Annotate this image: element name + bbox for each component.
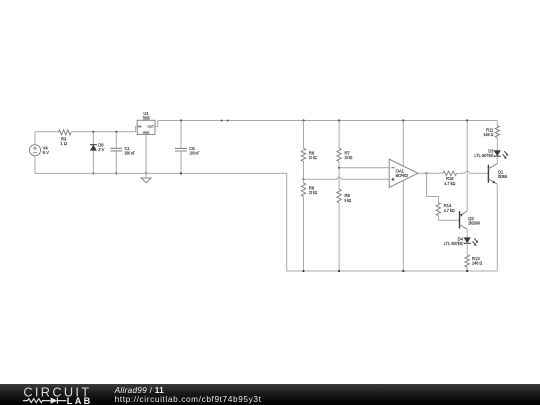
node bottom rail / op-amp V-: [402, 270, 404, 272]
wire R7/R8 node to op-amp minus: [339, 167, 389, 169]
resistor R9 22 k: [301, 179, 317, 196]
svg-text:2 V: 2 V: [98, 147, 104, 152]
node top rail / R6 column: [302, 119, 304, 121]
voltage source V4: [29, 145, 49, 156]
node top rail / C8: [180, 119, 182, 121]
wire R9 to bottom rail: [303, 197, 305, 272]
wire R6/R9 node to op-amp plus with hop: [304, 177, 390, 179]
resistor R11 146 ohm: [483, 126, 499, 138]
diode D6: [90, 132, 105, 174]
svg-text:10 kΩ: 10 kΩ: [309, 155, 317, 160]
svg-text:4.7 kΩ: 4.7 kΩ: [444, 181, 455, 186]
svg-text:100 nF: 100 nF: [189, 151, 200, 156]
capacitor C1 330 nF: [110, 132, 135, 174]
node R6/R9 junction: [302, 178, 304, 180]
resistor R13 146 ohm: [465, 255, 482, 267]
wire output to R16: [427, 172, 443, 174]
wire drop left-bottom rail down to lower rail: [287, 173, 304, 271]
LED D4 LTL-307EE: [444, 236, 478, 246]
svg-text:7805: 7805: [143, 115, 151, 120]
svg-text:LTL-307EE: LTL-307EE: [444, 241, 463, 246]
transistor Q1 2N3904: [488, 164, 507, 185]
wire top-left rail to R3: [35, 131, 58, 133]
node top rail / R7 column: [338, 119, 340, 121]
resistor R3: [58, 130, 71, 146]
wire hop to Q1 base: [469, 172, 488, 174]
wire D3 to Q1 collector: [496, 156, 498, 163]
wire op-amp V+ supply: [402, 121, 404, 167]
logo resistor zigzag: [23, 399, 51, 403]
wire top rail corner to R11: [496, 121, 498, 126]
svg-text:146 Ω: 146 Ω: [472, 260, 482, 265]
wire R13 to bottom rail: [466, 267, 468, 271]
resistor R6 10 k: [301, 121, 316, 162]
svg-text:9 kΩ: 9 kΩ: [345, 198, 352, 203]
wire R8 to bottom rail: [338, 203, 340, 271]
node bottom rail / R8: [338, 270, 340, 272]
svg-text:330 nF: 330 nF: [125, 151, 136, 156]
svg-text:IN: IN: [138, 125, 141, 129]
svg-text:2N3904: 2N3904: [498, 174, 508, 179]
wire D4 to R13: [466, 243, 468, 255]
wire R11 to D3: [496, 138, 498, 151]
svg-text:2N2906: 2N2906: [468, 221, 480, 226]
svg-text:OUT: OUT: [148, 125, 155, 129]
wire op-amp V- supply: [402, 181, 404, 271]
wire top rail to Q2 emitter: [466, 121, 468, 212]
wire op-amp output: [418, 172, 427, 174]
bottom-left rail: [35, 172, 287, 174]
logo diode: [51, 398, 58, 404]
svg-text:9 V: 9 V: [43, 150, 49, 155]
node top rail / op-amp V+: [402, 119, 404, 121]
node top rail mark a: [221, 120, 223, 122]
LED D3 LTL-307EE: [474, 148, 508, 159]
node bottom rail / D6: [92, 172, 94, 174]
node top rail / D6: [92, 131, 94, 133]
capacitor C8 100 nF: [175, 121, 200, 174]
svg-text:LTL-307EE: LTL-307EE: [474, 153, 493, 158]
node top rail / Q2 column: [466, 119, 468, 121]
node bottom rail / C1: [115, 172, 117, 174]
wire R7 to node: [338, 161, 340, 167]
node top rail / C1: [115, 131, 117, 133]
wire R14 to Q2 base: [438, 216, 459, 221]
wire R16 to hop: [457, 172, 465, 174]
voltage regulator U1 7805: [137, 111, 155, 134]
wire V4 bottom to rail: [34, 156, 36, 174]
node bottom rail / R13: [466, 270, 468, 272]
bottom-right rail: [304, 270, 498, 272]
node top rail mark b: [227, 120, 229, 122]
resistor R16 4.7 k: [443, 171, 457, 186]
node bottom rail / R9: [302, 270, 304, 272]
resistor R14 4.7 k: [436, 203, 455, 216]
transistor Q2 2N2906: [460, 211, 481, 229]
svg-text:1 Ω: 1 Ω: [60, 141, 67, 146]
wire Q2 collector to D4: [466, 229, 468, 237]
node R7/R8 junction: [338, 167, 340, 169]
node bottom rail / C8: [180, 172, 182, 174]
node output junction: [425, 172, 427, 174]
svg-text:10 kΩ: 10 kΩ: [345, 155, 353, 160]
wire Q1 emitter down: [496, 184, 498, 271]
wire hop over column: [465, 171, 469, 173]
svg-text:22 kΩ: 22 kΩ: [309, 190, 317, 195]
svg-text:146 Ω: 146 Ω: [483, 132, 493, 137]
node GND / bottom rail: [145, 172, 147, 174]
resistor R8 9 k: [337, 168, 351, 203]
svg-text:LAB: LAB: [67, 396, 93, 405]
wire R6 to node: [303, 161, 305, 179]
svg-text:http://circuitlab.com/cbf9t74b: http://circuitlab.com/cbf9t74b95y3t: [115, 394, 262, 404]
wire U1 OUT jog to top rail: [155, 121, 158, 127]
svg-text:GND: GND: [143, 131, 151, 135]
svg-text:4.7 kΩ: 4.7 kΩ: [444, 208, 455, 213]
top-right rail: [158, 120, 498, 122]
wire R3 to U1 jog: [71, 126, 137, 131]
svg-text:MCP602: MCP602: [396, 173, 409, 178]
wire output node down-jog to R14: [427, 173, 439, 202]
wire U1 GND down: [145, 134, 147, 173]
wire V4 top to rail: [34, 132, 36, 145]
op-amp OA1 MCP602: [389, 159, 418, 187]
ground: [141, 173, 151, 182]
resistor R7 10 k: [337, 121, 352, 162]
